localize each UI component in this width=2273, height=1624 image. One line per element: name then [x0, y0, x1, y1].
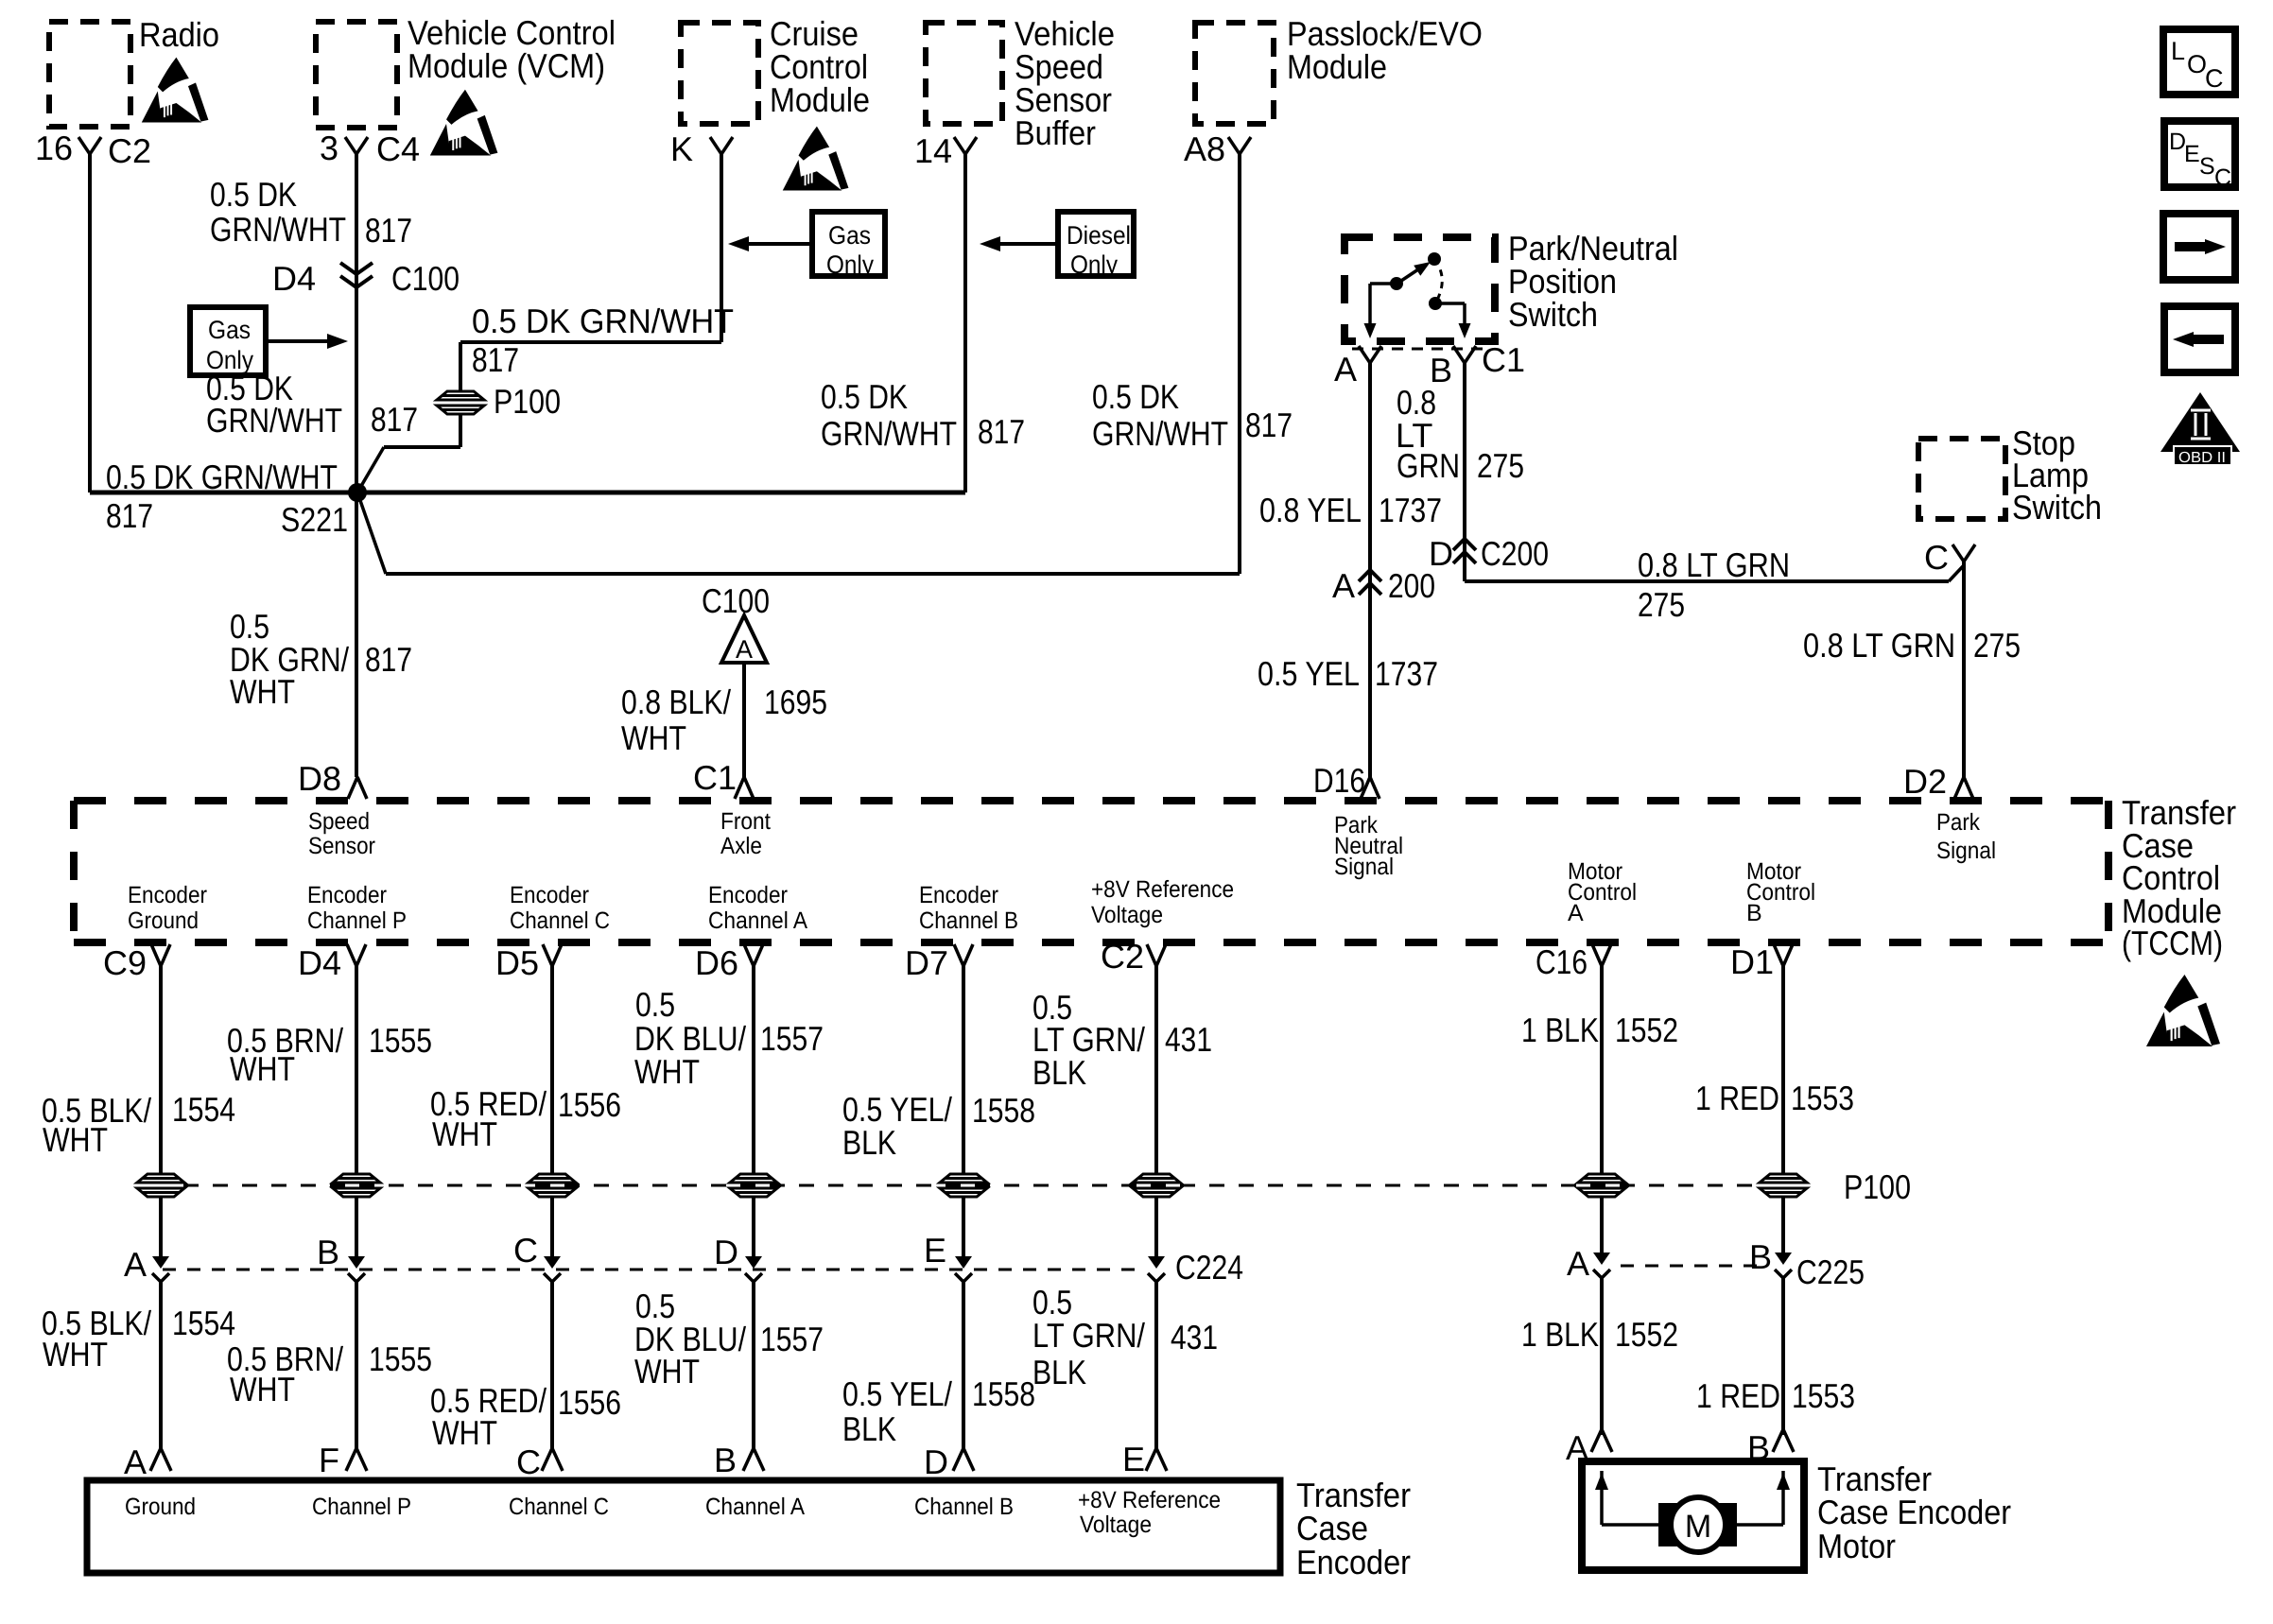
wire D7 vertical upper segment [962, 966, 965, 1175]
svg-text:0.8 LT GRN: 0.8 LT GRN [1638, 545, 1790, 584]
pin fork 16 (Radio C2) [78, 137, 101, 154]
pin fork C (stop lamp) [1952, 544, 1975, 561]
svg-text:GRN: GRN [1397, 446, 1460, 485]
svg-text:D1: D1 [1730, 942, 1774, 981]
svg-text:A: A [1334, 350, 1357, 389]
svg-text:0.8 YEL: 0.8 YEL [1259, 491, 1362, 529]
svg-text:0.5 DK GRN/WHT: 0.5 DK GRN/WHT [106, 458, 338, 496]
svg-text:1 RED: 1 RED [1695, 1079, 1779, 1117]
motor M symbol [1658, 1503, 1679, 1546]
wire B below C225 [1781, 1278, 1785, 1435]
svg-text:Module: Module [770, 80, 870, 119]
connector C224 pin F [1148, 1256, 1165, 1282]
component box Stop Lamp Switch [1918, 439, 2005, 519]
svg-text:L: L [2171, 37, 2185, 65]
svg-text:C2: C2 [108, 131, 151, 170]
switch contact dot B [1429, 297, 1442, 310]
svg-text:+8V Reference: +8V Reference [1078, 1487, 1221, 1513]
wire Radio C2 pin16 vertical [88, 154, 92, 492]
svg-text:Encoder: Encoder [1296, 1543, 1411, 1581]
connector P100 grommet (C16) [1577, 1173, 1626, 1199]
svg-text:OBD II: OBD II [2178, 450, 2226, 466]
svg-text:431: 431 [1165, 1020, 1212, 1059]
svg-text:O: O [2187, 50, 2207, 78]
connector box Radio [49, 22, 130, 127]
wire Cruise K horizontal [460, 340, 721, 344]
pin fork D7 (TCCM) [954, 944, 973, 966]
pin fork C (encoder) [542, 1448, 563, 1471]
wire B horizontal to stop lamp [1465, 579, 1949, 583]
svg-text:P100: P100 [1844, 1167, 1911, 1206]
svg-text:1558: 1558 [972, 1374, 1035, 1413]
svg-text:BLK: BLK [1032, 1053, 1086, 1092]
svg-text:1553: 1553 [1791, 1079, 1854, 1117]
svg-text:1558: 1558 [972, 1091, 1035, 1130]
svg-text:Front: Front [720, 808, 771, 835]
svg-text:A: A [1568, 900, 1584, 926]
svg-text:WHT: WHT [621, 718, 686, 757]
svg-text:0.5 DK: 0.5 DK [1092, 377, 1179, 416]
pin fork C16 (TCCM) [1592, 944, 1611, 966]
svg-text:1552: 1552 [1615, 1011, 1678, 1049]
svg-text:Module (VCM): Module (VCM) [408, 46, 605, 85]
connector P100 grommet (C2b) [1132, 1173, 1181, 1199]
wire C below C224 [550, 1282, 554, 1448]
svg-text:D6: D6 [695, 943, 738, 982]
svg-text:D: D [924, 1443, 948, 1481]
connector C224 pin E [955, 1256, 972, 1282]
connector P100 grommet (C9) [136, 1173, 185, 1199]
svg-text:BLK: BLK [842, 1123, 896, 1162]
svg-text:GRN/WHT: GRN/WHT [210, 210, 346, 249]
svg-text:P100: P100 [494, 382, 561, 421]
svg-text:C100: C100 [702, 581, 770, 620]
wire D5 vertical upper segment [550, 966, 554, 1175]
wire P100 branch horizontal [384, 445, 460, 449]
svg-text:Channel A: Channel A [708, 907, 807, 934]
connector box Cruise Control Module [681, 23, 758, 124]
pin fork A (motor) [1591, 1429, 1612, 1452]
svg-text:Channel P: Channel P [312, 1494, 411, 1520]
wire front axle vertical (ckt 1695) [742, 665, 746, 777]
pin fork B (motor) [1773, 1429, 1794, 1452]
pin fork D16 (TCCM) [1361, 777, 1379, 799]
svg-text:A8: A8 [1184, 130, 1225, 168]
svg-text:A: A [1567, 1244, 1589, 1283]
svg-text:WHT: WHT [634, 1052, 700, 1091]
wire to P100 vertical upper [459, 342, 462, 392]
svg-text:A: A [1566, 1428, 1588, 1467]
pin fork C9 (TCCM) [151, 944, 170, 966]
pin fork A (encoder) [150, 1448, 171, 1471]
svg-text:Motor: Motor [1817, 1527, 1896, 1565]
svg-text:WHT: WHT [43, 1335, 108, 1373]
svg-text:Channel B: Channel B [919, 907, 1018, 934]
svg-text:0.8 BLK/: 0.8 BLK/ [621, 682, 731, 721]
svg-text:S: S [2199, 153, 2215, 180]
svg-text:C200: C200 [1481, 534, 1549, 573]
wire VSS 14 vertical [963, 154, 967, 492]
connector P100 grommet (D6) [729, 1173, 778, 1199]
connector C100 chevrons (D4) [340, 263, 373, 287]
svg-text:D2: D2 [1903, 762, 1947, 801]
svg-text:Voltage: Voltage [1091, 902, 1163, 928]
svg-text:E: E [1122, 1440, 1145, 1478]
svg-text:Speed: Speed [308, 808, 370, 835]
svg-text:Radio: Radio [139, 15, 219, 54]
svg-text:Module: Module [1287, 47, 1387, 86]
svg-text:0.5: 0.5 [635, 985, 675, 1024]
icon OBD II triangle [2160, 392, 2240, 452]
svg-text:Ground: Ground [128, 907, 199, 934]
module box TCCM left edge [70, 801, 78, 942]
svg-text:C: C [1924, 538, 1949, 577]
svg-text:Channel C: Channel C [509, 1494, 609, 1520]
arrow Gas Only to VCM wire [266, 339, 329, 343]
svg-text:817: 817 [365, 211, 412, 250]
wire D4b vertical upper segment [355, 966, 358, 1175]
svg-text:Ground: Ground [125, 1494, 196, 1520]
svg-text:275: 275 [1638, 585, 1685, 624]
wire D into C224 [752, 1197, 755, 1257]
svg-text:0.5 DK GRN/WHT: 0.5 DK GRN/WHT [472, 302, 734, 340]
wire diagonal into stop lamp C [1949, 565, 1964, 581]
svg-text:0.5 YEL: 0.5 YEL [1258, 654, 1360, 693]
pin fork D4 bottom (TCCM) [347, 944, 366, 966]
svg-text:Signal: Signal [1936, 838, 1996, 864]
wire C2b vertical upper segment [1154, 966, 1158, 1175]
box Gas Only (left) [190, 307, 266, 375]
connector P100 grommet (D4b) [332, 1173, 381, 1199]
icon box DESC [2164, 121, 2235, 187]
motor internal wire A [1600, 1471, 1604, 1525]
svg-text:C: C [516, 1443, 541, 1481]
switch arm [1398, 268, 1421, 283]
svg-text:Sensor: Sensor [308, 833, 375, 859]
arrow Gas Only to K wire [747, 242, 812, 246]
svg-text:C: C [2205, 64, 2224, 93]
module box TCCM right edge [2105, 801, 2112, 942]
svg-text:Encoder: Encoder [708, 882, 788, 908]
pin fork F (encoder) [346, 1448, 367, 1471]
svg-text:1556: 1556 [558, 1383, 621, 1422]
svg-text:Channel C: Channel C [510, 907, 610, 934]
svg-text:Signal: Signal [1334, 854, 1394, 880]
svg-text:(TCCM): (TCCM) [2122, 924, 2223, 962]
wire S221 diagonal to lower branch [357, 492, 386, 574]
svg-text:1 BLK: 1 BLK [1521, 1011, 1599, 1049]
pin fork D2 (TCCM) [1954, 777, 1973, 799]
pin fork D5 (TCCM) [543, 944, 562, 966]
wire below P100 vertical [459, 413, 462, 447]
svg-text:WHT: WHT [230, 1049, 295, 1088]
svg-text:C2: C2 [1101, 937, 1144, 976]
wire lower branch horizontal to A8 [386, 572, 1240, 576]
svg-text:0.5 DK: 0.5 DK [821, 377, 908, 416]
svg-text:Encoder: Encoder [919, 882, 998, 908]
node S221 junction dot [348, 483, 367, 502]
svg-text:1737: 1737 [1379, 491, 1442, 529]
svg-text:C1: C1 [693, 758, 737, 797]
pin fork D8 (TCCM) [348, 777, 367, 799]
svg-text:817: 817 [365, 640, 412, 679]
svg-text:GRN/WHT: GRN/WHT [821, 414, 957, 453]
pin fork C1 (TCCM) [735, 777, 754, 799]
wire Passlock A8 vertical (ckt 817) [1238, 154, 1241, 574]
svg-text:WHT: WHT [432, 1413, 497, 1452]
svg-text:C9: C9 [103, 943, 147, 982]
svg-text:Case Encoder: Case Encoder [1817, 1493, 2011, 1531]
svg-text:C: C [513, 1231, 538, 1270]
svg-text:D8: D8 [298, 759, 341, 798]
svg-text:A: A [1332, 566, 1355, 605]
svg-text:D4: D4 [298, 943, 341, 982]
svg-text:Encoder: Encoder [128, 882, 207, 908]
svg-text:S221: S221 [281, 500, 348, 539]
wire A into C225 [1600, 1197, 1604, 1253]
svg-text:1737: 1737 [1375, 654, 1438, 693]
svg-text:Gas: Gas [828, 221, 871, 250]
svg-text:0.8 LT GRN: 0.8 LT GRN [1803, 626, 1955, 665]
wire A below C225 [1600, 1278, 1604, 1435]
svg-text:817: 817 [978, 412, 1025, 451]
wire PNP A vertical (ckt 1737) [1368, 363, 1372, 777]
pin fork B (PNP switch) [1453, 346, 1476, 363]
svg-text:C1: C1 [1482, 340, 1525, 379]
svg-text:Switch: Switch [2012, 488, 2102, 527]
svg-text:E: E [924, 1231, 946, 1270]
svg-text:+8V Reference: +8V Reference [1091, 876, 1234, 903]
motor internal wire B [1781, 1471, 1785, 1525]
svg-text:1554: 1554 [172, 1304, 235, 1342]
wire C9 vertical upper segment [159, 966, 163, 1175]
svg-text:F: F [319, 1441, 339, 1479]
svg-text:Encoder: Encoder [307, 882, 387, 908]
svg-text:Park: Park [1936, 809, 1980, 836]
connector 200 chevrons [1359, 570, 1381, 595]
svg-text:817: 817 [106, 496, 153, 535]
switch wire A internal [1370, 282, 1397, 285]
pin fork 3 (VCM C4) [345, 137, 368, 154]
svg-text:817: 817 [472, 340, 519, 379]
ESD symbol (TCCM) [2146, 975, 2220, 1046]
svg-text:C: C [2214, 164, 2231, 191]
svg-text:275: 275 [1973, 626, 2021, 665]
svg-text:A: A [124, 1245, 147, 1284]
svg-text:D: D [714, 1233, 738, 1271]
svg-text:C224: C224 [1175, 1248, 1243, 1287]
component box Park/Neutral Position Switch [1345, 237, 1495, 341]
svg-text:B: B [1747, 1428, 1770, 1467]
svg-text:1695: 1695 [764, 682, 827, 721]
svg-text:817: 817 [371, 400, 418, 439]
pin fork D (encoder) [953, 1448, 974, 1471]
pin fork 14 (VSS buffer) [954, 137, 977, 154]
svg-text:1557: 1557 [760, 1320, 824, 1358]
svg-text:Channel A: Channel A [705, 1494, 805, 1520]
switch wire B internal [1435, 302, 1465, 305]
svg-text:431: 431 [1171, 1318, 1218, 1356]
svg-text:BLK: BLK [1032, 1353, 1086, 1391]
pin fork D1 (TCCM) [1774, 944, 1793, 966]
wire B into C225 [1781, 1197, 1785, 1253]
wire D6 vertical upper segment [752, 966, 755, 1175]
wire VCM C4 pin3 vertical (ckt 817) [355, 154, 358, 777]
svg-text:GRN/WHT: GRN/WHT [206, 401, 342, 440]
module box TCCM top edge [74, 797, 2108, 804]
svg-text:1557: 1557 [760, 1019, 824, 1058]
dashed line C224 [163, 1269, 1139, 1271]
icon box right arrow [2163, 214, 2235, 280]
svg-text:Buffer: Buffer [1015, 113, 1096, 152]
connector box Passlock/EVO Module [1195, 23, 1274, 124]
wire A into C224 [159, 1197, 163, 1257]
wire C16 vertical upper segment [1600, 966, 1604, 1175]
svg-text:1554: 1554 [172, 1090, 235, 1129]
svg-text:1552: 1552 [1615, 1315, 1678, 1354]
svg-text:E: E [2184, 141, 2200, 167]
pin fork C2 bottom (TCCM) [1147, 944, 1166, 966]
svg-text:LT GRN/: LT GRN/ [1032, 1316, 1145, 1355]
ESD symbol (Radio) [142, 58, 209, 123]
svg-text:1 BLK: 1 BLK [1521, 1315, 1599, 1354]
svg-text:1556: 1556 [558, 1085, 621, 1124]
svg-text:A: A [736, 635, 753, 664]
pin fork A8 (Passlock) [1228, 137, 1251, 154]
svg-text:WHT: WHT [230, 672, 295, 711]
wire F below C224 [1154, 1282, 1158, 1448]
icon OBD II label box [2174, 446, 2231, 465]
connector C224 pin D [745, 1256, 762, 1282]
wire A below C224 [159, 1282, 163, 1448]
pin fork B (encoder) [743, 1448, 764, 1471]
svg-text:GRN/WHT: GRN/WHT [1092, 414, 1228, 453]
svg-text:D16: D16 [1313, 761, 1365, 800]
connector box Vehicle Control Module [316, 22, 397, 128]
wire D below C224 [752, 1282, 755, 1448]
svg-text:200: 200 [1388, 566, 1435, 605]
svg-text:WHT: WHT [230, 1370, 295, 1408]
svg-text:C4: C4 [376, 130, 420, 168]
svg-text:0.5 DK: 0.5 DK [210, 175, 297, 214]
dashed line P100 row [183, 1184, 1761, 1187]
connector C225 pin B [1775, 1253, 1792, 1278]
svg-text:D4: D4 [272, 259, 316, 298]
svg-text:1553: 1553 [1792, 1376, 1855, 1415]
svg-text:B: B [714, 1441, 737, 1479]
pin fork K (Cruise) [710, 137, 733, 154]
svg-text:14: 14 [914, 131, 952, 170]
connector C224 pin B [348, 1256, 365, 1282]
connector line C1 (below switch) [1352, 348, 1486, 351]
connector C224 pin A [152, 1256, 169, 1282]
svg-text:D5: D5 [495, 943, 539, 982]
svg-text:WHT: WHT [432, 1114, 497, 1153]
connector P100 grommet (D1) [1759, 1173, 1808, 1199]
component box Transfer Case Encoder Motor [1582, 1461, 1804, 1570]
icon right arrow [2175, 242, 2207, 251]
icon left arrow [2192, 335, 2224, 344]
svg-text:B: B [317, 1233, 339, 1271]
connector C224 pin C [544, 1256, 561, 1282]
ESD symbol (Cruise) [783, 127, 849, 191]
svg-text:1 RED: 1 RED [1696, 1376, 1780, 1415]
connector box Vehicle Speed Sensor Buffer [926, 23, 1002, 124]
svg-text:K: K [670, 130, 693, 168]
svg-text:1555: 1555 [369, 1021, 432, 1060]
symbol front axle triangle [721, 615, 767, 663]
svg-text:0.5 YEL/: 0.5 YEL/ [842, 1374, 952, 1413]
svg-text:16: 16 [35, 129, 73, 167]
svg-text:Channel B: Channel B [914, 1494, 1014, 1520]
svg-text:M: M [1685, 1509, 1711, 1545]
svg-text:Only: Only [826, 251, 874, 279]
connector P100 grommet (D7) [939, 1173, 988, 1199]
svg-text:A: A [124, 1443, 147, 1481]
svg-text:Diesel: Diesel [1067, 221, 1131, 250]
svg-text:Axle: Axle [720, 833, 762, 859]
wire D1 vertical upper segment [1781, 966, 1785, 1175]
svg-text:Switch: Switch [1508, 295, 1598, 334]
svg-text:WHT: WHT [634, 1352, 700, 1391]
wire main bus S221 horizontal [90, 491, 965, 495]
svg-text:B: B [1749, 1237, 1772, 1276]
svg-text:BLK: BLK [842, 1409, 896, 1448]
arrow Diesel Only to VSS wire [998, 242, 1058, 246]
icon box LOC [2163, 29, 2235, 95]
svg-text:B: B [1746, 900, 1762, 926]
svg-text:Gas: Gas [208, 316, 251, 344]
svg-text:Only: Only [1070, 251, 1118, 279]
component box Transfer Case Encoder [87, 1480, 1280, 1573]
box Gas Only (cruise) [812, 212, 885, 276]
svg-text:3: 3 [320, 129, 338, 167]
wire E below C224 [962, 1282, 965, 1448]
switch pivot dot [1428, 252, 1441, 266]
svg-text:C100: C100 [391, 259, 460, 298]
pin fork E (encoder) [1146, 1448, 1167, 1471]
connector C225 pin A [1593, 1253, 1610, 1278]
wire E into C224 [962, 1197, 965, 1257]
connector P100 grommet (cruise branch) [436, 390, 485, 416]
module box TCCM bottom edge [74, 939, 2108, 946]
svg-text:Channel P: Channel P [307, 907, 407, 934]
dashed line C225 [1621, 1265, 1761, 1268]
box Diesel Only [1058, 212, 1134, 276]
switch contact dot A [1390, 277, 1403, 290]
svg-text:C16: C16 [1536, 942, 1588, 981]
wire B into C224 [355, 1197, 358, 1257]
svg-text:C225: C225 [1796, 1253, 1865, 1291]
wire stop lamp C vertical (ckt 275) [1962, 561, 1966, 777]
wire B below C224 [355, 1282, 358, 1448]
icon OBD II glyph [2191, 410, 2211, 439]
svg-text:Encoder: Encoder [510, 882, 589, 908]
svg-text:Voltage: Voltage [1080, 1512, 1152, 1538]
wire Cruise K vertical [720, 154, 723, 342]
ESD symbol (VCM) [430, 90, 498, 156]
svg-text:Case: Case [1296, 1509, 1368, 1547]
svg-text:275: 275 [1477, 446, 1524, 485]
svg-text:D7: D7 [905, 943, 948, 982]
connector P100 grommet (D5) [528, 1173, 577, 1199]
pin fork D6 (TCCM) [744, 944, 763, 966]
svg-text:1555: 1555 [369, 1339, 432, 1378]
switch dashed arc [1434, 259, 1442, 303]
wire C into C224 [550, 1197, 554, 1257]
svg-text:817: 817 [1245, 406, 1293, 444]
icon box left arrow [2164, 306, 2235, 372]
